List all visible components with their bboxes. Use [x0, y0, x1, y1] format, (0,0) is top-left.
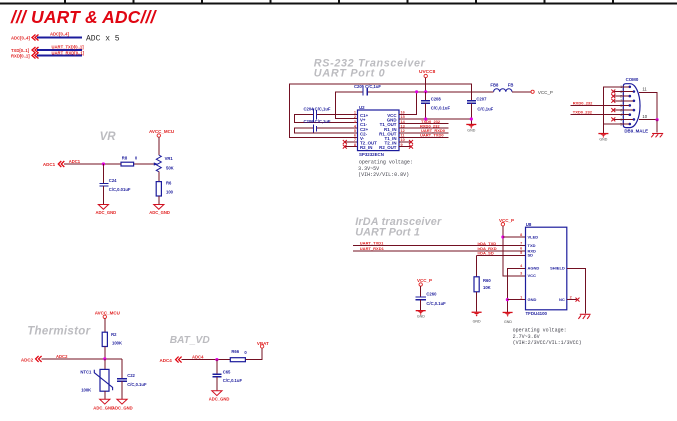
svg-text:ADC1: ADC1 [43, 162, 56, 167]
svg-text:ADC[0..4]: ADC[0..4] [11, 36, 30, 41]
wire potentiometer to R6 [158, 172, 160, 182]
capacitor C207 C/C,1uF [467, 96, 494, 111]
svg-text:GND: GND [504, 320, 512, 324]
wire ADC1 to R8 [64, 163, 121, 165]
wire V+ (pin2) up to C205 rail [336, 92, 363, 119]
svg-text:3: 3 [354, 120, 356, 124]
svg-text:6: 6 [520, 247, 522, 251]
svg-text:C24: C24 [109, 178, 117, 183]
ground GND (R60) [472, 312, 482, 324]
svg-text:8: 8 [354, 143, 356, 147]
svg-text:COM0: COM0 [626, 77, 639, 82]
svg-text:Thermistor: Thermistor [27, 326, 90, 338]
svg-text:100K: 100K [112, 341, 122, 346]
svg-text:R6: R6 [166, 181, 172, 186]
IC U2 SP3232ECN [354, 105, 406, 157]
svg-text:FB8: FB8 [490, 83, 499, 88]
svg-text:GND: GND [599, 137, 607, 141]
svg-text:GND: GND [417, 315, 425, 319]
svg-text:R2_OUT: R2_OUT [379, 145, 397, 150]
svg-text:ADC_GND: ADC_GND [149, 210, 170, 215]
port ADC[0..4] chevron [32, 35, 39, 41]
svg-text:SP3232ECN: SP3232ECN [359, 152, 384, 157]
svg-text:C/C,0.1uF: C/C,0.1uF [127, 382, 147, 387]
svg-text:AGND: AGND [528, 266, 540, 271]
wire AGND down to GND symbol [507, 268, 525, 312]
wire pin1 C1+ loop [294, 114, 357, 122]
svg-text:VCC_P: VCC_P [417, 278, 432, 283]
svg-text:ADC_GND: ADC_GND [209, 397, 230, 402]
svg-text:C65: C65 [223, 369, 231, 374]
svg-text:10K: 10K [483, 285, 491, 290]
wire C24 to ADC_GND [102, 186, 104, 205]
svg-text:U2: U2 [359, 105, 365, 110]
wire to pin8 VLED [503, 236, 526, 238]
potentiometer VR1 50K [153, 155, 174, 172]
wire cap C204 to pin1 [317, 113, 358, 115]
svg-text:10: 10 [642, 114, 647, 119]
wire VCC_P to C260 [420, 286, 422, 296]
resistor R60 10K [474, 277, 491, 292]
power VCC_P (UART0) [531, 90, 553, 95]
bus wire UART_TXD[0..1] [37, 49, 82, 51]
junction node GND pin1 [506, 298, 509, 301]
no-connect stub pin8 R2_IN [343, 145, 358, 149]
svg-text:5: 5 [520, 251, 522, 255]
svg-text:RXD[0..1]: RXD[0..1] [11, 54, 30, 59]
svg-text:C206 C/C,1uF: C206 C/C,1uF [304, 119, 331, 124]
thermistor NTC1 100K [80, 369, 112, 392]
capacitor C204 C/C,1uF [304, 107, 331, 123]
svg-text:100: 100 [166, 190, 174, 195]
wire C22 to ADC_GND [121, 381, 123, 399]
svg-text:(VIH:2/3VCC/VIL:1/3VCC): (VIH:2/3VCC/VIL:1/3VCC) [513, 340, 582, 346]
svg-text:7: 7 [354, 138, 356, 142]
wire R6 to ADC_GND [158, 196, 160, 205]
wire DB9 shield pin 11 [639, 92, 657, 119]
svg-text:RXD0_232: RXD0_232 [573, 100, 593, 105]
svg-text:1: 1 [354, 111, 356, 115]
svg-text:UART_RXD[0..1]: UART_RXD[0..1] [52, 51, 85, 56]
svg-text:R2_IN: R2_IN [360, 145, 372, 150]
capacitor C24 C/C,0.01uF [99, 178, 131, 192]
svg-text:(VIH:2V/VIL:0.8V): (VIH:2V/VIL:0.8V) [358, 172, 409, 178]
connector pin circles [629, 86, 636, 126]
ground ADC_GND (NTC1) [93, 399, 114, 410]
no-connect stub pin7 T2_OUT [343, 140, 358, 144]
svg-text:AVCC_MCU: AVCC_MCU [149, 129, 174, 134]
svg-text:NTC1: NTC1 [80, 369, 92, 374]
junction node rail/UVCC8 [424, 90, 427, 93]
svg-text:FB: FB [508, 83, 514, 88]
wire T1_IN pin11 with net UART_TXD0 [399, 136, 449, 138]
svg-text:TXD: TXD [528, 243, 536, 248]
svg-text:ADC2: ADC2 [56, 354, 68, 359]
wire GND pin15 to C207 bottom [399, 118, 471, 120]
svg-text:VLED: VLED [528, 234, 539, 239]
annotation operating voltage UART0 [358, 160, 413, 179]
svg-text:R8: R8 [122, 155, 128, 160]
svg-text:ADC4: ADC4 [160, 358, 173, 363]
junction node C207/GND row [470, 117, 473, 120]
svg-text:6: 6 [354, 134, 356, 138]
ground ADC_GND (C22) [112, 399, 133, 410]
svg-text:C/C,0.1uF: C/C,0.1uF [426, 301, 446, 306]
svg-text:5: 5 [354, 129, 356, 133]
op-amp-free wires: V- loop (pin6 to C207 top) [290, 84, 472, 137]
wire junction to C24 [102, 164, 104, 183]
svg-text:C/C,0.1uF: C/C,0.1uF [223, 378, 243, 383]
svg-text:ADC_GND: ADC_GND [96, 210, 117, 215]
svg-text:2: 2 [354, 115, 356, 119]
svg-text:DB9_MALE: DB9_MALE [624, 129, 648, 134]
svg-text:VR1: VR1 [165, 156, 174, 161]
junction node C208/GND row [424, 117, 427, 120]
svg-text:TXD0_232: TXD0_232 [573, 109, 593, 114]
wire R60 to GND [476, 292, 478, 312]
resistor R8 0 [121, 155, 138, 166]
ferrite bead FB8 FB [490, 83, 513, 92]
port ADC1 chevron [58, 161, 64, 167]
svg-text:VR: VR [100, 131, 117, 143]
svg-text:R60: R60 [483, 278, 491, 283]
wire T1_OUT pin14 with net TXD0_232 [399, 123, 449, 125]
wire DB9 pin3 net RXD0_232 [571, 104, 630, 106]
svg-text:ADC[0..4]: ADC[0..4] [50, 32, 69, 37]
wire C207 to GND junction [470, 103, 472, 124]
junction node ADC1 [102, 162, 105, 165]
resistor R6 100 [156, 181, 173, 197]
ground ADC_GND (under R6) [149, 205, 170, 215]
capacitor C208 C/C,0.1uF [421, 96, 450, 110]
annotation operating voltage IrDA [513, 328, 582, 347]
wire pin4 C2+ loop [294, 128, 357, 133]
svg-text:7: 7 [520, 241, 522, 245]
wire R2 to junction [104, 347, 106, 359]
svg-text:0: 0 [244, 350, 247, 355]
junction node shield [656, 118, 659, 121]
svg-text:ADC x 5: ADC x 5 [86, 35, 120, 44]
connector pin numbers [620, 85, 622, 126]
svg-text:C208: C208 [431, 96, 442, 101]
svg-text:3: 3 [520, 272, 522, 276]
resistor R2 100K [102, 332, 122, 346]
wire cap C206 to pin4 [317, 127, 358, 129]
capacitor C205 C/C,1uF [354, 84, 381, 95]
ground GND (UART0) [466, 124, 476, 133]
wire C65 to ADC_GND [216, 377, 218, 391]
wire junction to C22 [121, 359, 123, 379]
wire ADC4 horizontal [182, 359, 231, 361]
svg-text:VCC_P: VCC_P [499, 218, 514, 223]
svg-text:ADC4: ADC4 [192, 355, 204, 360]
chassis ground (SHIELD) [578, 314, 590, 319]
port ADC4 chevron [176, 357, 182, 363]
power VCC_P (IrDA cap branch) [417, 278, 432, 286]
junction node ADC4 [215, 358, 218, 361]
svg-text:C22: C22 [127, 373, 135, 378]
svg-text:ADC1: ADC1 [69, 159, 81, 164]
svg-text:ADC_GND: ADC_GND [93, 406, 114, 411]
svg-text:UART Port 1: UART Port 1 [355, 227, 420, 239]
junction node ADC2 [103, 357, 106, 360]
wire DB9 pin1 to gnd rail [603, 87, 629, 133]
capacitor C260 C/C,0.1uF [416, 292, 446, 307]
capacitor C65 C/C,0.1uF [212, 369, 242, 383]
power UVCC8 [419, 69, 436, 92]
svg-text:operating voltage:: operating voltage: [513, 328, 567, 334]
power AVCC_MCU (thermistor) [95, 310, 120, 318]
svg-text:C/C,0.1uF: C/C,0.1uF [431, 105, 451, 110]
wire C205 rail right to VCC node [367, 91, 493, 93]
wire shield to chassis ground [656, 120, 658, 133]
no-connect stub DB9 pin8 [611, 108, 633, 112]
svg-text:11: 11 [642, 87, 647, 92]
svg-text:C/C,1uF: C/C,1uF [477, 106, 493, 111]
wire wiper to R8 [134, 163, 154, 165]
port RXD[0..1] chevron [32, 53, 39, 59]
svg-text:C260: C260 [426, 292, 437, 297]
chassis ground (COM0 shield) [651, 134, 663, 138]
junction node VLED [501, 235, 504, 238]
wire ADC2 horizontal [42, 358, 122, 360]
power VCC_P (IrDA top) [499, 218, 514, 226]
no-connect stub DB9 pin6 [611, 90, 633, 94]
resistor R66 0 [230, 349, 247, 362]
power AVCC_MCU [149, 129, 174, 137]
svg-text:SD: SD [528, 253, 534, 258]
wire R1_OUT pin12 with net UART_RXD0 [399, 132, 449, 134]
svg-text:UART_TXD0: UART_TXD0 [420, 133, 444, 138]
no-connect stub DB9 pin9 [611, 117, 633, 121]
svg-text:BAT_VD: BAT_VD [170, 335, 211, 346]
bus wire ADC[0..4] [37, 37, 82, 39]
svg-text:C207: C207 [476, 96, 487, 101]
svg-text:2: 2 [570, 295, 572, 299]
sheet top border line [0, 0, 677, 4]
ground ADC_GND (C65) [209, 391, 230, 402]
svg-text:UART_RXD1: UART_RXD1 [360, 246, 385, 251]
svg-text:ADC_GND: ADC_GND [112, 406, 133, 411]
power VBAT [257, 341, 269, 348]
no-connect stub DB9 pin7 [611, 99, 633, 103]
svg-text:/// UART & ADC///: /// UART & ADC/// [10, 7, 157, 27]
svg-text:GND: GND [473, 320, 481, 324]
wire UART_TXD1 to pin7 TXD [353, 245, 525, 247]
ground GND (COM0) [598, 133, 608, 142]
wire FB to VCC_P [512, 91, 531, 93]
no-connect stub pin10 T2_IN [399, 140, 413, 144]
wire UVCC8 node down to C208 [425, 92, 427, 101]
wire NTC1 to ADC_GND [104, 391, 106, 399]
svg-text:SHIELD: SHIELD [550, 266, 565, 271]
svg-text:R66: R66 [231, 349, 239, 354]
svg-text:100K: 100K [81, 387, 91, 392]
svg-text:IrDA_SD: IrDA_SD [478, 251, 494, 256]
wire C260 to GND [420, 300, 422, 310]
svg-text:TFDU4100: TFDU4100 [526, 311, 548, 316]
wire DB9 shield pin 10 [639, 119, 657, 121]
wire AVCC_MCU to R2 [104, 319, 106, 333]
wire C208 to GND row [425, 103, 427, 119]
svg-text:C205 C/C,1uF: C205 C/C,1uF [354, 84, 381, 89]
svg-text:C204 C/C,1uF: C204 C/C,1uF [304, 107, 331, 112]
ground GND (under U8) [503, 312, 513, 324]
svg-text:TXD[0..1]: TXD[0..1] [11, 48, 30, 53]
svg-text:UVCC8: UVCC8 [419, 69, 436, 75]
wire SHIELD to chassis ground [567, 268, 586, 313]
ground GND (C260) [416, 310, 426, 319]
svg-text:50K: 50K [166, 165, 174, 170]
svg-text:VCC: VCC [528, 273, 537, 278]
svg-text:0: 0 [135, 155, 138, 160]
wire VCC pin16 to rail [399, 92, 417, 115]
no-connect stub DB9 pin2 [611, 94, 629, 98]
svg-text:VCC_P: VCC_P [538, 90, 553, 95]
IC U8 IrDA [520, 222, 572, 316]
junction node rail/VCC [415, 90, 418, 93]
svg-text:1: 1 [520, 295, 522, 299]
wire VCC_P down to VCC pin [503, 226, 526, 276]
wire IrDA_SD to pin5 SD [477, 254, 526, 256]
svg-text:8: 8 [520, 233, 522, 237]
bus wire UART_RXD[0..1] [37, 55, 82, 57]
wire to pin1 GND [507, 299, 525, 301]
wire SD down to R60 [476, 255, 478, 276]
svg-text:UART Port 0: UART Port 0 [314, 67, 386, 79]
svg-text:NC: NC [559, 297, 565, 302]
wire DB9 pin4 net TXD0_232 [571, 114, 630, 116]
wire junction to NTC1 [104, 359, 106, 370]
svg-text:R2: R2 [111, 332, 117, 337]
wire junction to C65 [216, 360, 218, 374]
svg-text:operating voltage:: operating voltage: [359, 160, 413, 166]
wire DB9 pin5 to gnd rail [603, 123, 629, 125]
ground ADC_GND (VR cap) [96, 205, 117, 215]
capacitor C22 C/C,0.1uF [117, 373, 147, 387]
no-connect stub pin9 R2_OUT [399, 145, 413, 149]
svg-text:C/C,0.01uF: C/C,0.01uF [109, 187, 131, 192]
svg-text:UART_TXD[0..1]: UART_TXD[0..1] [52, 45, 85, 50]
svg-text:IrDA_TXD: IrDA_TXD [478, 241, 497, 246]
svg-text:GND: GND [528, 297, 537, 302]
port TXD[0..1] chevron [32, 47, 39, 53]
capacitor C206 C/C,1uF [304, 119, 331, 133]
svg-text:AVCC_MCU: AVCC_MCU [95, 310, 120, 315]
svg-text:ADC2: ADC2 [21, 357, 34, 362]
wire R66 to VBAT [245, 348, 262, 360]
wire R1_IN pin13 with net RXD0_232 [399, 127, 449, 129]
svg-text:U8: U8 [526, 222, 532, 227]
no-connect stub pin2 NC [567, 298, 580, 302]
svg-text:UART_TXD1: UART_TXD1 [360, 241, 384, 246]
connector COM0 DB9_MALE body [623, 77, 648, 134]
port ADC2 chevron [36, 356, 42, 362]
svg-text:GND: GND [467, 128, 475, 132]
svg-text:4: 4 [520, 264, 523, 268]
wire AVCC_MCU to potentiometer [158, 137, 160, 155]
wire UART_RXD1 to pin6 RXD [353, 250, 525, 252]
